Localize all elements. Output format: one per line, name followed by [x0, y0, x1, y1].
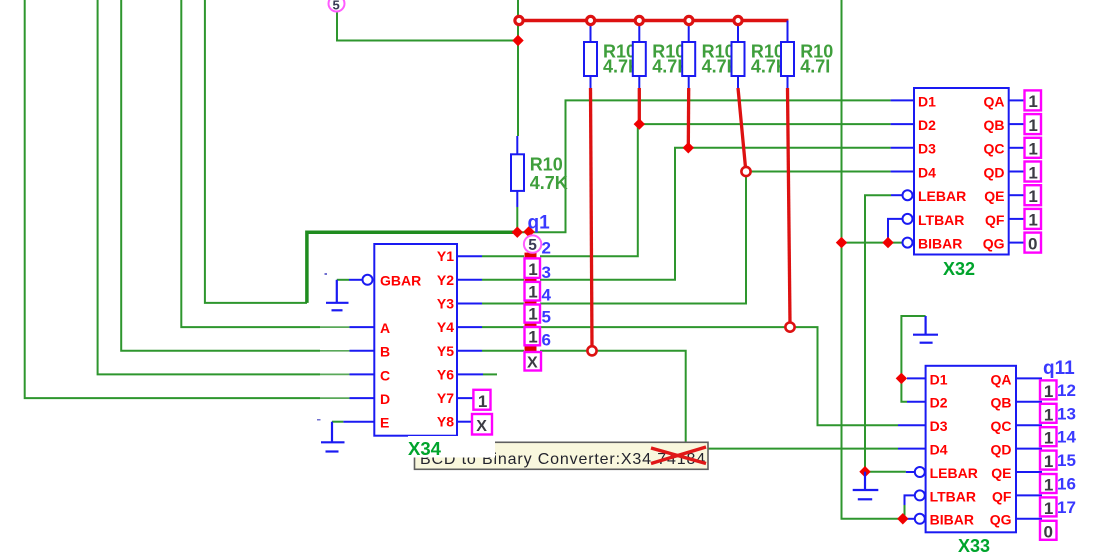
pin stub X33 QF [1016, 494, 1042, 496]
value box Y3 digit 1 [525, 282, 541, 302]
svg-text:A: A [380, 320, 390, 336]
wire Y3 net to D4 row of X32 [482, 303, 524, 305]
pin stub X34 B [350, 350, 375, 352]
value box Y7 digit 1 [473, 390, 490, 411]
svg-text:QC: QC [984, 141, 1005, 157]
svg-text:QC: QC [991, 418, 1012, 434]
pin stub X33 D3 [898, 424, 926, 426]
svg-text:Y7: Y7 [437, 390, 454, 406]
ground symbol above X33 [913, 316, 938, 343]
wire X33 D1 D2 ground net [901, 316, 925, 402]
svg-text:R10: R10 [530, 155, 563, 175]
junction dot D2 row resistor2 [634, 118, 645, 129]
svg-text:5: 5 [333, 0, 340, 13]
svg-text:D1: D1 [930, 371, 948, 387]
pin stub X33 QG [1016, 518, 1042, 520]
wire Y1 net to D2 row of X32 [482, 255, 524, 257]
pin bubble X34 GBAR [363, 275, 373, 285]
svg-text:1: 1 [1044, 476, 1053, 495]
svg-text:6: 6 [542, 330, 551, 349]
svg-text:17: 17 [1057, 498, 1076, 517]
svg-text:14: 14 [1057, 428, 1076, 447]
red stub column Y3 [525, 300, 537, 306]
wire q1 to D1 row of X32 [517, 100, 890, 232]
junction ring bus start [515, 16, 523, 24]
red cross over 74184 [651, 447, 706, 464]
pin stub X33 QE [1016, 471, 1042, 473]
resistor R10 pullup1 lead and body [590, 21, 592, 43]
svg-text:D1: D1 [918, 93, 936, 109]
svg-text:E: E [380, 415, 389, 431]
svg-text:X32: X32 [943, 259, 975, 279]
svg-text:4.7K: 4.7K [530, 173, 568, 193]
pin stub X34 Y5 [457, 350, 482, 352]
junction ring bus resistor4 [685, 16, 693, 24]
svg-text:X34: X34 [408, 438, 442, 459]
svg-text:1: 1 [1028, 187, 1037, 206]
junction dot top bus corner [512, 35, 523, 46]
ground symbol at X33 LEBAR [853, 472, 879, 500]
pin stub X34 A [350, 326, 375, 328]
wire thick selected GBAR-q1 wire [307, 232, 517, 303]
svg-text:1: 1 [528, 283, 537, 302]
svg-text:Y1: Y1 [437, 248, 454, 264]
pin stub X32 D1 [891, 99, 914, 101]
svg-text:Y8: Y8 [437, 414, 454, 430]
pin stub X33 D2 [907, 401, 926, 403]
svg-text:q1: q1 [528, 213, 551, 234]
svg-text:X: X [476, 418, 487, 435]
pin bubble X33 BIBAR [915, 514, 925, 524]
svg-text:C: C [380, 367, 390, 383]
svg-text:Y3: Y3 [437, 296, 454, 312]
pin stub X32 QE [1009, 194, 1025, 196]
value box X33 QE digit 1 [1040, 474, 1057, 493]
svg-text:1: 1 [1044, 382, 1053, 401]
junction ring D4 row red wire end [741, 167, 750, 176]
pin stub X32 QA [1009, 99, 1025, 101]
pin stub X33 D4 [898, 448, 926, 450]
junction ring Y5 row red wire end [587, 346, 596, 355]
red stub column Y4 [525, 322, 537, 328]
svg-text:1: 1 [1028, 92, 1037, 111]
wire light segment row A [320, 326, 350, 328]
pin stub X34 Y3 [457, 303, 482, 305]
svg-text:D: D [380, 391, 390, 407]
svg-text:QE: QE [991, 465, 1011, 481]
svg-text:QB: QB [991, 395, 1012, 411]
svg-text:1: 1 [1044, 405, 1053, 424]
svg-text:D2: D2 [918, 117, 936, 133]
wire Y6 stub [483, 373, 497, 375]
ground symbol at X34 GBAR [326, 280, 349, 311]
pin stub X33 LEBAR [906, 471, 914, 473]
value box X33 QG digit 0 [1040, 521, 1057, 540]
wire X32 LTBAR drop [887, 240, 889, 243]
value box Y2 digit 1 [525, 258, 541, 279]
svg-text:12: 12 [1057, 381, 1076, 400]
svg-text:QA: QA [984, 93, 1005, 109]
X32 output value boxes QA-QG [1025, 90, 1042, 253]
pin bubble X32 LTBAR [903, 214, 913, 224]
wire light segment row D [320, 397, 350, 399]
svg-text:LTBAR: LTBAR [930, 488, 976, 504]
pin stub X32 D4 [891, 171, 914, 173]
svg-text:5: 5 [528, 237, 537, 254]
red stub column Y1 [525, 253, 537, 259]
IC X33 display decoder body [926, 366, 1016, 533]
pin stub X32 D3 [891, 147, 914, 149]
resistor R10 pullup2 lead and body [638, 21, 640, 43]
svg-text:1: 1 [528, 305, 537, 324]
node 5 probe bubble top [329, 0, 345, 13]
svg-text:QG: QG [990, 512, 1012, 528]
pin stub X34 Y8 [457, 421, 472, 423]
wire net D vertical from top [25, 0, 320, 398]
svg-text:Y5: Y5 [437, 343, 454, 359]
junction ring Y4 row red wire end [785, 323, 794, 332]
wire X32 LEBAR net down to X33 LEBAR [865, 195, 906, 472]
pin stub X34 Y7 [457, 397, 473, 399]
wire X33 LTBAR drop [904, 505, 906, 519]
resistor R10 pullup5 lead and body [787, 21, 789, 43]
svg-text:QG: QG [983, 236, 1005, 252]
value box Y8 digit X [472, 414, 492, 435]
pin stub X33 LTBAR with drop [905, 495, 915, 505]
value box X32 QE digit 1 [1025, 185, 1042, 205]
red wire from R103 to D2 row [638, 88, 641, 124]
pin bubble X32 BIBAR [903, 238, 913, 248]
svg-text:BIBAR: BIBAR [930, 512, 974, 528]
wire Y4 net to D3 row of X33 [482, 326, 524, 328]
pin stub X34 GBAR [349, 279, 362, 281]
pin bubble X33 LTBAR [915, 490, 925, 500]
svg-text:q11: q11 [1043, 358, 1075, 379]
resistor R10 pullup3 lead and body [688, 21, 690, 43]
stray artifact dash 2 [317, 419, 321, 421]
value box X32 QA digit 1 [1025, 90, 1042, 110]
value box X33 QA digit 1 [1040, 380, 1057, 399]
svg-text:1: 1 [1028, 116, 1037, 135]
wire net C vertical from top [98, 0, 320, 374]
svg-text:X: X [527, 355, 538, 372]
wire E short segment [332, 421, 343, 423]
white overlay covering tooltip top-left [408, 436, 495, 458]
pin bubble X33 LEBAR [915, 467, 925, 477]
wire Y5 net to D4 row of X33 [482, 350, 524, 352]
IC X34 BCD to Binary Converter body [374, 244, 457, 436]
pin stub X33 BIBAR [906, 518, 914, 520]
value box Y4 digit 1 [525, 305, 541, 324]
svg-text:13: 13 [1057, 404, 1076, 423]
pin stub X34 D [350, 397, 375, 399]
svg-text:3: 3 [542, 263, 551, 282]
pin stub X34 Y2 [457, 279, 482, 281]
junction dot q1 probe stub [523, 226, 534, 237]
red wire from R104 to D3 row [687, 88, 691, 148]
pin stub X34 C [350, 373, 375, 375]
pin stub X34 E [343, 421, 374, 423]
svg-text:1: 1 [528, 260, 537, 279]
wire X32 BIBAR net down to X33 BIBAR [842, 0, 903, 243]
tooltip BCD to Binary Converter:X34 74184 [415, 442, 709, 469]
svg-text:QF: QF [992, 488, 1012, 504]
svg-text:QD: QD [984, 164, 1005, 180]
pin stub X32 QC [1009, 147, 1025, 149]
pin stub X34 Y4 [457, 326, 482, 328]
wire R10 lower lead to q1 [516, 207, 518, 232]
svg-text:4: 4 [542, 285, 552, 304]
junction dot D3 row resistor3 [683, 142, 694, 153]
junction dot X32 BIBAR left [836, 237, 847, 248]
pin stub X32 LEBAR [891, 194, 902, 196]
pin stub X33 QD [1016, 448, 1042, 450]
junction ring bus resistor3 [635, 16, 643, 24]
stray artifact dot 1 [325, 273, 328, 275]
value box X32 QG digit 0 [1025, 233, 1042, 253]
svg-text:BIBAR: BIBAR [918, 236, 962, 252]
pin stub X33 QC [1016, 424, 1042, 426]
svg-text:1: 1 [1028, 140, 1037, 159]
svg-text:QB: QB [984, 117, 1005, 133]
svg-text:QD: QD [991, 442, 1012, 458]
probe circle value 5 on q1 [524, 235, 541, 253]
value box X32 QD digit 1 [1025, 162, 1042, 182]
svg-text:Y4: Y4 [437, 319, 454, 335]
svg-text:QE: QE [984, 188, 1004, 204]
wire node5 bubble stem [337, 11, 518, 41]
svg-text:Y6: Y6 [437, 366, 454, 382]
svg-text:Y2: Y2 [437, 272, 454, 288]
svg-text:1: 1 [528, 327, 537, 346]
pin stub X32 QG [1009, 242, 1025, 244]
red stub column Y5 [525, 345, 537, 352]
junction dot X32 BIBAR right [882, 237, 893, 248]
wire net B vertical from top [121, 0, 320, 351]
svg-text:1: 1 [478, 392, 487, 411]
pin stub X33 QB [1016, 401, 1042, 403]
svg-text:0: 0 [1044, 522, 1053, 541]
pin stub X34 Y6 [457, 373, 483, 375]
svg-text:X33: X33 [958, 536, 990, 553]
value box X33 QC digit 1 [1040, 427, 1057, 446]
pin stub X33 QA [1016, 377, 1042, 379]
junction ring bus resistor5 [734, 16, 742, 24]
value box X32 QB digit 1 [1025, 114, 1042, 134]
wire GBAR short segment [337, 279, 349, 281]
svg-text:1: 1 [1028, 211, 1037, 230]
value box Y5 digit 1 [525, 327, 541, 346]
svg-text:D4: D4 [930, 442, 948, 458]
resistor R10 middle lead and body [516, 136, 518, 154]
wire light segment row C [320, 373, 350, 375]
wire top junction vertical [517, 0, 519, 41]
svg-text:1: 1 [1044, 429, 1053, 448]
pin stub X32 D2 [891, 123, 914, 125]
ground symbol at X34 E [321, 422, 345, 452]
svg-text:1: 1 [1044, 499, 1053, 518]
wire GBAR loop vertical from top [205, 0, 307, 303]
IC X32 display decoder body [914, 88, 1009, 255]
junction ring bus resistor2 [587, 16, 595, 24]
svg-text:D3: D3 [930, 418, 948, 434]
wire light segment row B [320, 350, 350, 352]
svg-text:QF: QF [985, 212, 1005, 228]
wire R10 upper lead [517, 41, 519, 137]
junction dot X33 LEBAR ground [859, 466, 870, 477]
pin stub X32 QF [1009, 218, 1025, 220]
junction dot X33 BIBAR [897, 513, 908, 524]
svg-text:16: 16 [1057, 475, 1076, 494]
pin stub X34 Y1 [457, 255, 482, 257]
value box X32 QF digit 1 [1025, 209, 1042, 229]
svg-text:B: B [380, 344, 390, 360]
red stub column Y2 [525, 277, 537, 283]
svg-text:QA: QA [991, 371, 1012, 387]
svg-text:LTBAR: LTBAR [918, 212, 964, 228]
value box X33 QD digit 1 [1040, 451, 1057, 470]
pin stub X32 LTBAR with drop [888, 219, 902, 240]
svg-text:LEBAR: LEBAR [918, 188, 966, 204]
svg-text:1: 1 [1044, 452, 1053, 471]
red bus top horizontal [518, 19, 788, 23]
wire net A vertical from top [181, 0, 320, 327]
red wire from R102 to Y5 row [591, 88, 593, 347]
value box X32 QC digit 1 [1025, 138, 1042, 158]
value box X33 QF digit 1 [1040, 497, 1057, 516]
value box X33 QB digit 1 [1040, 404, 1057, 423]
svg-text:D2: D2 [930, 395, 948, 411]
pin bubble X32 LEBAR [903, 190, 913, 200]
svg-text:1: 1 [1028, 163, 1037, 182]
red wire from R105 to D4 row [738, 88, 746, 168]
svg-text:D4: D4 [918, 164, 936, 180]
svg-text:0: 0 [1028, 234, 1037, 253]
pin stub X32 QB [1009, 123, 1025, 125]
svg-text:2: 2 [542, 239, 551, 258]
red wire from R106 to Y4 row [788, 88, 791, 323]
resistor R10 pullup4 lead and body [737, 21, 739, 43]
wire Y2 net to D3 row of X32 [482, 279, 524, 281]
svg-text:15: 15 [1057, 451, 1076, 470]
svg-text:D3: D3 [918, 141, 936, 157]
svg-text:GBAR: GBAR [380, 273, 421, 289]
pin stub X32 QD [1009, 171, 1025, 173]
svg-text:5: 5 [542, 308, 551, 327]
junction dot X33 D1 [896, 373, 907, 384]
junction dot q1 node [512, 227, 523, 238]
pin stub X33 D1 [907, 377, 926, 379]
svg-text:LEBAR: LEBAR [930, 465, 978, 481]
value box Y6 digit X [525, 352, 542, 372]
svg-text:4.7I: 4.7I [800, 57, 830, 77]
